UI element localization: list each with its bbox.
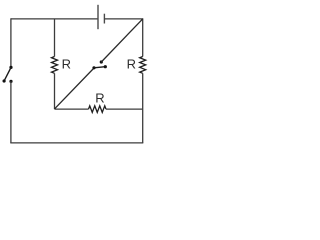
battery B1 short plate — [103, 14, 105, 24]
wire left rail upper — [10, 18, 12, 67]
switch S2 upper terminal node — [100, 60, 103, 63]
wire left rail lower — [10, 81, 12, 142]
switch S1 blade — [4, 67, 11, 81]
battery B1 long plate — [97, 5, 99, 29]
wire middle horizontal right segment — [106, 108, 143, 110]
svg-text:R: R — [127, 57, 136, 72]
switch S2 blade — [94, 67, 105, 68]
resistor R bottom zigzag — [89, 106, 107, 113]
svg-text:R: R — [62, 57, 71, 72]
wire bottom rail — [10, 142, 143, 144]
resistor R middle zigzag — [52, 57, 58, 74]
svg-text:R: R — [95, 90, 104, 105]
wire middle branch lower — [54, 73, 56, 109]
wire right rail lower — [142, 73, 144, 143]
switch S1 blade end node — [3, 79, 6, 82]
resistor R right zigzag — [140, 57, 146, 74]
wire diagonal upper segment — [101, 19, 142, 62]
wire top rail right segment — [104, 18, 142, 20]
wire middle branch upper — [54, 19, 56, 57]
switch S2 blade end node — [104, 65, 107, 68]
wire right rail upper — [142, 18, 144, 56]
wire diagonal lower segment — [55, 68, 95, 109]
wire top rail left segment — [11, 18, 98, 20]
switch S1 lower terminal node — [9, 80, 12, 83]
switch S1 upper terminal node — [9, 66, 12, 69]
switch S2 lower terminal node — [92, 66, 95, 69]
wire middle horizontal left segment — [55, 108, 89, 110]
